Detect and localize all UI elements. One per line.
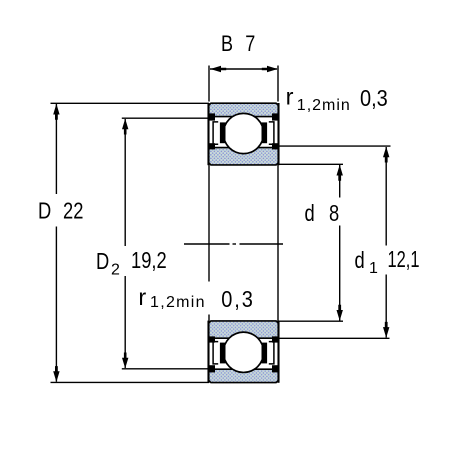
bottom bearing section (mirrored) bbox=[208, 321, 278, 383]
D extension top bbox=[51, 102, 210, 104]
D2 arrow up bbox=[122, 119, 128, 135]
d extension bottom bbox=[279, 320, 343, 322]
B arrow left bbox=[210, 66, 226, 72]
shaft/bore line left bbox=[208, 165, 210, 282]
svg-text:2: 2 bbox=[111, 262, 120, 279]
top bearing section bbox=[208, 103, 278, 165]
label r 1,2min 0,3 (left) bbox=[138, 284, 146, 310]
label d1 12,1 bbox=[355, 248, 365, 274]
svg-text:0,3: 0,3 bbox=[221, 285, 254, 312]
d extension top bbox=[279, 163, 343, 165]
D2 extension bottom bbox=[122, 368, 213, 370]
B dimension line bbox=[210, 68, 277, 70]
shaft/bore line right bbox=[277, 165, 279, 322]
label r 1,2min 0,3 (top right) bbox=[286, 84, 294, 110]
D arrow down bbox=[53, 366, 59, 382]
svg-text:D: D bbox=[96, 249, 109, 275]
svg-text:1: 1 bbox=[369, 260, 378, 277]
d1 dimension line bbox=[385, 147, 387, 246]
d1 arrow down bbox=[383, 322, 389, 338]
B arrow right bbox=[262, 66, 278, 72]
svg-text:19,2: 19,2 bbox=[131, 248, 167, 274]
d1 extension bottom bbox=[279, 337, 390, 339]
label D 22 bbox=[38, 199, 51, 225]
D arrow up bbox=[53, 104, 59, 120]
d arrow down bbox=[337, 305, 343, 321]
svg-text:D: D bbox=[38, 199, 51, 225]
D2 dimension line bbox=[124, 119, 126, 246]
label D2 19,2 bbox=[96, 249, 109, 275]
d arrow up bbox=[337, 165, 343, 181]
d1 arrow up bbox=[383, 147, 389, 163]
svg-text:1,2min: 1,2min bbox=[150, 294, 206, 311]
svg-text:r: r bbox=[138, 284, 146, 310]
svg-text:d: d bbox=[305, 201, 315, 227]
D2 extension top bbox=[122, 117, 213, 119]
svg-text:1,2min: 1,2min bbox=[297, 97, 351, 114]
svg-text:r: r bbox=[286, 84, 294, 110]
svg-text:d: d bbox=[355, 248, 365, 274]
svg-text:7: 7 bbox=[245, 32, 255, 56]
d dimension line bbox=[339, 165, 341, 198]
D dimension line bbox=[55, 104, 57, 194]
B extension lines bbox=[208, 66, 210, 102]
D extension bottom bbox=[51, 381, 210, 383]
svg-text:12,1: 12,1 bbox=[388, 248, 420, 273]
label B 7 bbox=[221, 33, 233, 57]
svg-text:22: 22 bbox=[63, 199, 83, 225]
d1 extension top bbox=[279, 145, 391, 147]
svg-text:0,3: 0,3 bbox=[360, 84, 388, 111]
svg-text:B: B bbox=[221, 33, 233, 57]
D2 arrow down bbox=[122, 353, 128, 369]
svg-text:8: 8 bbox=[329, 201, 339, 227]
label d 8 bbox=[305, 201, 315, 227]
center line bbox=[184, 243, 230, 245]
